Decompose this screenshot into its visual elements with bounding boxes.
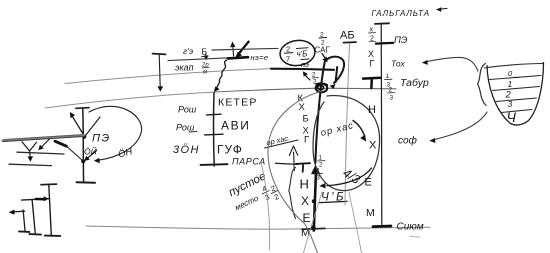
svg-text:2: 2 [273, 192, 280, 202]
wire cup divider 2 [493, 87, 540, 91]
label level 3 [508, 99, 513, 109]
wire L3 bottom siyum line [86, 226, 430, 229]
label level 0 [508, 69, 519, 78]
arrow into ChB from right [319, 183, 325, 188]
label X center [301, 194, 309, 208]
svg-text:ГУФ: ГУФ [217, 143, 243, 157]
label ON left sketch [117, 146, 134, 160]
node top T-bar [76, 107, 89, 110]
wire big circle [313, 96, 380, 191]
svg-text:Сиюм: Сиюм [397, 222, 424, 233]
label tiny 2P/M [201, 63, 209, 76]
wire faint crossing curve below M [304, 192, 323, 253]
wire cup right wall [529, 63, 544, 121]
svg-text:Г: Г [370, 59, 375, 69]
svg-text:ÖН: ÖН [117, 146, 134, 160]
wire line junction to ellipse [212, 48, 278, 50]
label SIYUM [397, 222, 424, 233]
svg-text:Г: Г [304, 135, 309, 146]
arrow SAG down to knot [322, 54, 328, 63]
label 2/7 fraction [285, 45, 294, 64]
svg-text:Рош: Рош [176, 123, 195, 133]
arrow stool pointing left [9, 210, 25, 215]
svg-text:1: 1 [386, 73, 390, 80]
label PE galgalta [394, 35, 408, 46]
label level 1 [508, 79, 513, 89]
arrow up-left from PE node [70, 112, 84, 136]
svg-text:соф: соф [398, 135, 418, 147]
label ChB overlined in ellipse [297, 48, 309, 59]
svg-text:3: 3 [508, 99, 513, 109]
wire big left oval curve [268, 91, 325, 253]
arrow up-left to PE line end [303, 71, 310, 80]
wire middle short line [17, 152, 64, 154]
label NE=E [251, 53, 269, 62]
label ladder X2 [303, 126, 310, 137]
wire V drop with arrow [22, 142, 37, 162]
svg-text:Табур: Табур [400, 77, 429, 89]
label ladder G [304, 135, 309, 146]
svg-text:ПЭ: ПЭ [394, 35, 408, 46]
node dot at X level [312, 199, 316, 203]
svg-text:Е: Е [365, 177, 372, 189]
label ROSH1 [178, 105, 197, 115]
label N galgalta [368, 104, 376, 116]
label ChB with underline [320, 192, 348, 204]
svg-text:Н: Н [300, 177, 309, 192]
node tick rosh1 [207, 113, 222, 116]
beam tall I [41, 184, 60, 236]
svg-text:Б: Б [303, 114, 309, 125]
svg-text:Тох: Тох [391, 59, 405, 69]
wire cup divider 4 [501, 110, 532, 113]
label T glyph center column [296, 163, 310, 172]
wire galgalta vertical [380, 23, 383, 225]
svg-text:экап: экап [175, 63, 194, 73]
label mesto [234, 193, 261, 212]
node galgalta top T [375, 22, 389, 25]
wire knot loop with arrow [325, 57, 345, 89]
label or has small underlined [265, 133, 299, 148]
node junction smudge [228, 57, 248, 58]
label E center [303, 211, 311, 225]
wire bold vertical knot to T [315, 63, 324, 163]
label 2/2 above SAG [319, 32, 327, 47]
beam left I [19, 210, 29, 232]
node bottom T-bar [77, 181, 96, 184]
svg-text:0: 0 [508, 69, 513, 78]
label ladder B [303, 114, 309, 125]
svg-text:7: 7 [286, 55, 290, 64]
svg-text:3ÖН: 3ÖН [173, 144, 200, 156]
svg-text:М: М [366, 207, 375, 219]
label PE left sketch [92, 133, 111, 145]
wire lower short line [9, 164, 52, 165]
wire center column vertical [213, 93, 216, 167]
node parsa base T [201, 163, 228, 166]
label PARSA [232, 157, 266, 167]
label level 2 [505, 90, 512, 101]
wire parsa dash segment [276, 163, 299, 164]
label TABUR [400, 77, 429, 89]
label ekap [175, 63, 194, 73]
svg-text:Х: Х [368, 49, 374, 59]
label SOF [398, 135, 418, 147]
svg-text:АБ: АБ [340, 30, 355, 42]
label ZON [173, 144, 200, 156]
wire zigzag squiggle down to keter [214, 60, 227, 92]
label fraction 2/2 diagonal [268, 183, 282, 202]
svg-text:г'э: г'э [183, 46, 193, 56]
wire faint diagonal below circle [349, 192, 362, 253]
label OY left sketch [84, 146, 98, 157]
wire cup top edge [485, 64, 544, 69]
svg-text:ÖЙ: ÖЙ [84, 146, 98, 157]
label SAG [315, 46, 331, 55]
wire PE bold line [271, 69, 334, 70]
wire AB faint vertical [345, 44, 350, 206]
arrow short diagonal to middle line [38, 139, 49, 150]
svg-text:1: 1 [508, 79, 513, 89]
label fraction 1/2 at T [318, 156, 326, 169]
svg-text:ГАЛЬГАЛЬТА: ГАЛЬГАЛЬТА [372, 9, 431, 18]
svg-text:Х: Х [299, 102, 306, 113]
svg-text:АВИ: АВИ [221, 119, 250, 133]
label AVI [221, 119, 250, 133]
label X below PE [368, 49, 374, 59]
arrow small down onto ekap line [204, 54, 209, 61]
brace cup [478, 64, 487, 106]
wire cup divider 3 [496, 98, 537, 102]
dimension arrow down to line L2 [157, 55, 163, 92]
node PE bar galgalta [376, 42, 393, 45]
svg-text:ПАРСА: ПАРСА [232, 157, 266, 167]
label or has curved with arrow [320, 120, 367, 142]
svg-text:КЕТЕР: КЕТЕР [218, 97, 258, 109]
label ladder X1 [299, 102, 306, 113]
label level 4 [507, 109, 517, 125]
label X/2 fraction left [369, 27, 377, 43]
label GUF [217, 143, 243, 157]
wire cup bottom [511, 121, 529, 125]
arrow small into lower node [84, 151, 96, 162]
wire diagonal into PE node [85, 117, 100, 136]
svg-text:Н: Н [368, 104, 376, 116]
node lower junction dot [81, 159, 85, 163]
wire ON loop arc with arrow [89, 106, 142, 163]
label fraction 1/3 tabur [385, 73, 393, 89]
label AB [340, 30, 355, 42]
label M galgalta [366, 207, 375, 219]
svg-text:Рош: Рош [178, 105, 197, 115]
svg-text:нэ=е: нэ=е [251, 53, 269, 62]
wire vertical left sketch [82, 108, 85, 181]
label ROSH2 underlined [176, 123, 197, 133]
node tabur bold T [363, 78, 380, 88]
svg-text:ПЭ: ПЭ [92, 133, 111, 145]
svg-text:Х: Х [369, 140, 377, 152]
label E galgalta [365, 177, 372, 189]
label N center [300, 177, 309, 192]
wire cup left wall [487, 66, 511, 124]
label X galgalta [369, 140, 377, 152]
svg-text:Х: Х [301, 194, 309, 208]
wire cup divider 1 [490, 76, 542, 80]
arrow bold diagonal into junction [235, 42, 248, 59]
label G below X [370, 59, 375, 69]
label 2/2 knot fraction [312, 72, 319, 86]
node knot circle scribble [316, 83, 328, 92]
arrow long to TOX from cup [422, 57, 478, 71]
label 4/3 rotated with swoosh [327, 166, 372, 187]
node tick rosh2 [205, 133, 224, 136]
ellipse 2/7 ChB blob [279, 38, 317, 67]
node dot at M level [311, 225, 316, 230]
dimension T-bar top [153, 53, 166, 56]
svg-text:2: 2 [319, 163, 323, 169]
brace center column [289, 168, 296, 219]
label M center [301, 227, 310, 239]
wire thick graphite top line [3, 135, 84, 142]
node AB T-bar [344, 41, 357, 44]
wire bold dash diagonal to lower node [55, 141, 82, 159]
label KETER [218, 97, 258, 109]
svg-text:ор хас: ор хас [320, 120, 356, 139]
svg-text:2: 2 [286, 45, 290, 54]
svg-text:Ч: Ч [507, 109, 517, 125]
label PE overlined [301, 59, 309, 69]
arrow thin up at junction [230, 41, 235, 56]
wire faint pustoe curve [261, 162, 270, 250]
beam middle I [29, 200, 41, 235]
label TOX [391, 59, 405, 69]
svg-text:Б: Б [202, 47, 208, 57]
wire siyum smudge [410, 236, 420, 238]
label pustoe [227, 170, 268, 199]
arrow hollow up [289, 146, 298, 171]
wire L2 lower long line [45, 88, 396, 108]
label GALGALTA with arrow [372, 7, 448, 18]
wire bold up-arrow from M to T [314, 174, 316, 231]
label fraction 2/3 below T [315, 169, 323, 182]
label ladder K [298, 93, 304, 104]
wire L1 upper long line [65, 69, 271, 84]
label fraction 4/3 diagonal [259, 183, 273, 203]
svg-text:ч'Б: ч'Б [297, 50, 308, 59]
node PE junction dot [82, 135, 86, 139]
wire ekap line [168, 58, 234, 61]
wire stool horizontal bar with right arrow [22, 196, 49, 201]
svg-text:м: м [203, 70, 207, 76]
node galgalta base bar [373, 225, 391, 228]
arrow sof from cup [429, 112, 487, 143]
label B underlined [202, 47, 209, 57]
label fraction 2/3 tabur [388, 87, 396, 102]
svg-text:3: 3 [390, 95, 394, 102]
label GE [183, 46, 193, 56]
svg-text:М: М [301, 227, 310, 239]
arrow bold solid head at T [311, 165, 320, 175]
